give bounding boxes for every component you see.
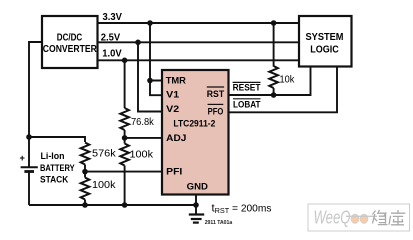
wire R576k to node (84, 165, 86, 178)
svg-text:+: + (20, 153, 25, 163)
svg-text:LOBAT: LOBAT (233, 99, 261, 110)
label RESET (233, 82, 261, 93)
svg-text:GND: GND (187, 182, 208, 193)
svg-text:WeeQ: WeeQ (314, 208, 351, 228)
svg-text:PFO: PFO (208, 106, 224, 117)
wire battery feed from DC/DC input (29, 42, 42, 167)
resistor 76.8k (120, 108, 129, 130)
op-amp U1 LTC2911-2 body (162, 70, 229, 195)
wire ADJ (125, 137, 162, 139)
svg-text:RST: RST (207, 89, 224, 100)
node 3.3V pull-up tap (271, 20, 277, 26)
wire 3.3V rail (98, 22, 301, 24)
watermark WeeQoo (308, 204, 410, 231)
svg-text:CONVERTER: CONVERTER (43, 44, 98, 55)
resistor 100k upper (120, 144, 129, 166)
label LOBAT (233, 99, 261, 111)
svg-text:10k: 10k (280, 75, 295, 86)
DC/DC converter box (42, 16, 98, 68)
node TMR branch (147, 78, 153, 84)
svg-text:1.0V: 1.0V (102, 48, 122, 59)
node PFI divider (82, 169, 88, 175)
resistor 10k (269, 66, 278, 88)
wire 2.5V rail (98, 41, 301, 43)
node battery top (26, 134, 32, 140)
svg-text:LTC2911-2: LTC2911-2 (173, 118, 215, 128)
wire PFI (85, 171, 162, 173)
node bottom rail right column (122, 202, 128, 208)
wire battery minus to bottom rail (28, 172, 30, 205)
svg-text:Li-Ion: Li-Ion (41, 151, 65, 161)
svg-text:STACK: STACK (40, 175, 69, 185)
wire 1.0V rail (98, 59, 301, 61)
node 3.3V tap (147, 20, 153, 26)
wire bottom rail (29, 204, 196, 206)
svg-text:3.3V: 3.3V (103, 12, 123, 23)
node 1.0V tap (122, 58, 128, 64)
wire 1.0V down to R 76.8k (124, 60, 126, 108)
SYSTEM LOGIC box (299, 16, 352, 67)
svg-text:V2: V2 (166, 104, 179, 115)
wire 3.3V down to R10k (273, 23, 275, 67)
svg-text:576k: 576k (92, 149, 116, 160)
node ADJ divider (122, 135, 128, 141)
svg-text:LOGIC: LOGIC (310, 44, 339, 55)
svg-text:BATTERY: BATTERY (40, 163, 75, 173)
svg-text:tRST = 200ms: tRST = 200ms (212, 202, 272, 215)
node bottom rail left column (82, 202, 88, 208)
wire RST to system logic (229, 67, 311, 95)
battery BT1 Li-Ion stack (20, 153, 38, 171)
svg-text:2911 TA01a: 2911 TA01a (205, 220, 233, 226)
svg-text:ADJ: ADJ (166, 133, 186, 144)
ground (189, 205, 204, 223)
resistor 576k (81, 143, 90, 165)
wire 2.5V to V2 (138, 42, 162, 111)
svg-text:TMR: TMR (166, 75, 186, 86)
resistor 100k lower (81, 178, 90, 200)
svg-text:100k: 100k (92, 180, 116, 191)
svg-text:RESET: RESET (233, 83, 261, 94)
node RST pull-up junction (271, 92, 277, 98)
wire GND stem (195, 194, 197, 205)
wire 100k to bottom rail (124, 166, 126, 206)
pin PFO (208, 104, 224, 117)
pin RST (207, 87, 224, 100)
node GND junction (193, 202, 199, 208)
svg-text:SYSTEM: SYSTEM (306, 32, 344, 43)
wire 3.3V to TMR and V1 (150, 23, 162, 95)
node 2.5V tap (135, 40, 141, 46)
svg-text:DC/DC: DC/DC (57, 32, 83, 43)
wire battery node to R576k (29, 137, 85, 142)
svg-text:V1: V1 (166, 89, 180, 100)
label Li-Ion battery stack (40, 151, 75, 185)
wire PFO to system logic (229, 67, 338, 112)
svg-text:PFI: PFI (166, 167, 182, 178)
svg-text:76.8k: 76.8k (131, 117, 154, 128)
wire R10k to RST line (273, 88, 275, 95)
svg-text:2.5V: 2.5V (101, 32, 121, 43)
wire R100k to bottom rail (84, 200, 86, 206)
wire R76.8k to ADJ node (124, 130, 126, 144)
svg-text:100k: 100k (130, 149, 154, 160)
